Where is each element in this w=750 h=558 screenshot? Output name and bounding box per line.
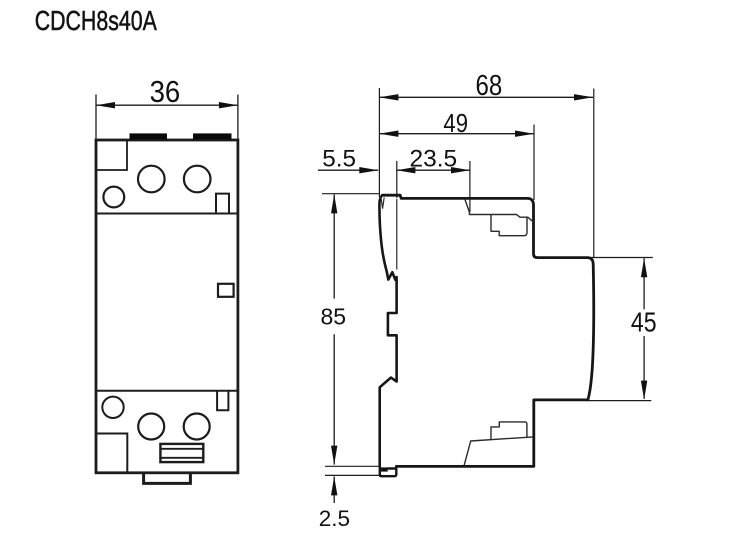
svg-text:68: 68 — [476, 69, 503, 101]
svg-text:45: 45 — [631, 308, 657, 338]
svg-text:2.5: 2.5 — [319, 506, 350, 531]
svg-text:5.5: 5.5 — [322, 145, 356, 172]
svg-text:36: 36 — [150, 74, 181, 109]
svg-text:CDCH8s40A: CDCH8s40A — [35, 5, 157, 37]
svg-text:49: 49 — [443, 109, 468, 138]
svg-text:85: 85 — [321, 304, 347, 330]
svg-text:23.5: 23.5 — [409, 145, 457, 172]
